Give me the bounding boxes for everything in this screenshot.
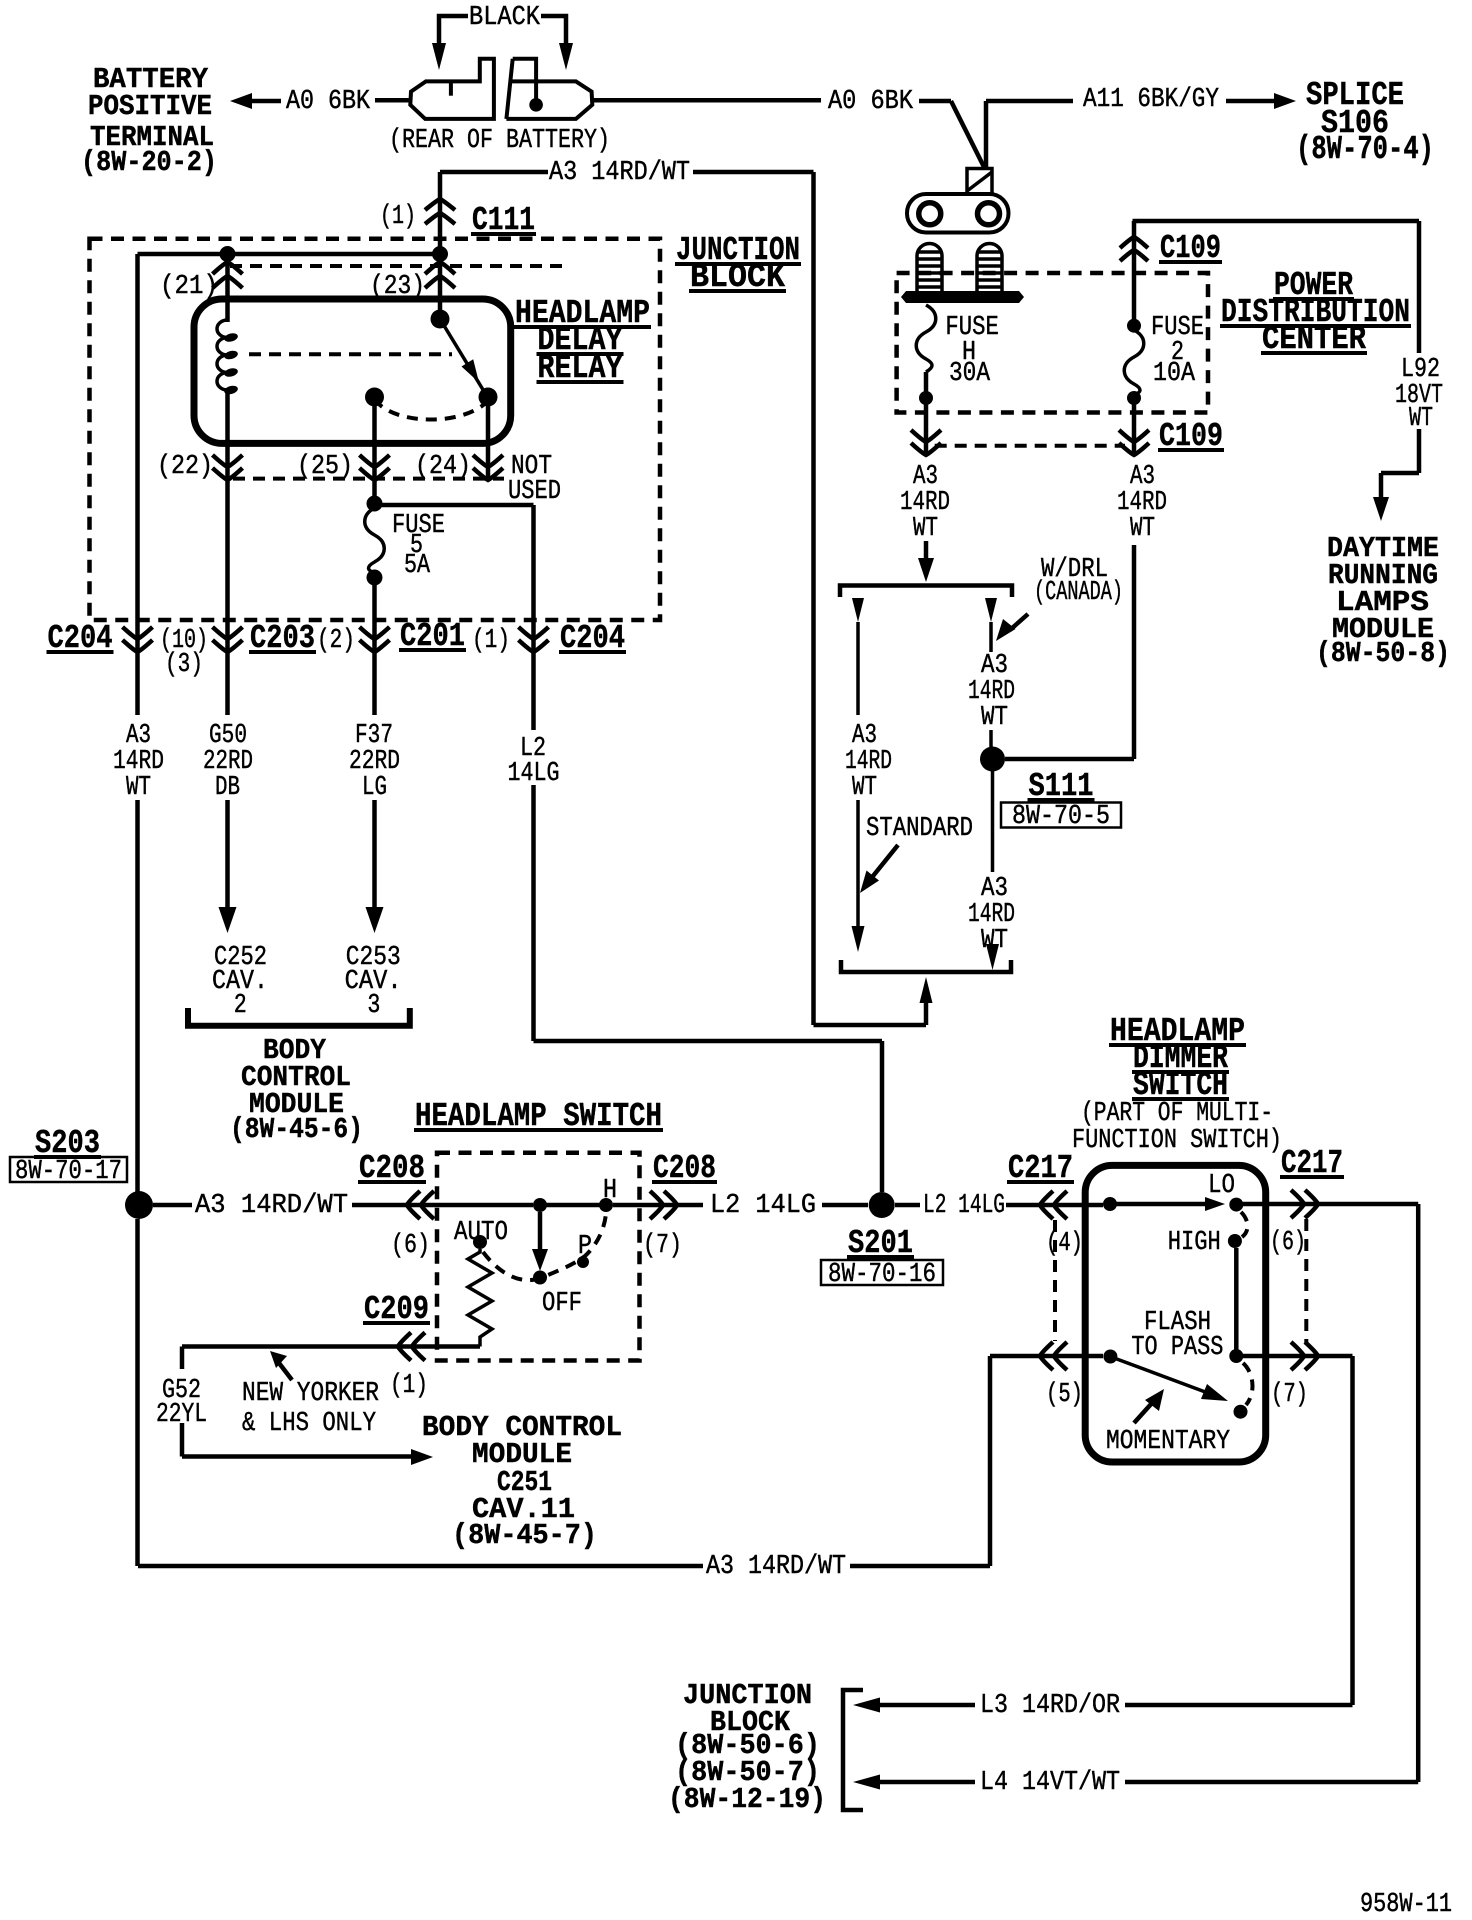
svg-text:NEW YORKER: NEW YORKER [242, 1379, 379, 1409]
svg-text:30A: 30A [949, 359, 991, 389]
svg-text:8W-70-17: 8W-70-17 [15, 1157, 122, 1187]
svg-text:(REAR OF BATTERY): (REAR OF BATTERY) [389, 126, 610, 156]
svg-text:(6): (6) [391, 1231, 430, 1261]
svg-text:(1): (1) [472, 626, 510, 656]
svg-text:(4): (4) [1046, 1229, 1083, 1259]
svg-text:(21): (21) [160, 272, 218, 302]
svg-text:(7): (7) [643, 1231, 682, 1261]
svg-text:L3 14RD/OR: L3 14RD/OR [980, 1691, 1120, 1721]
svg-text:14LG: 14LG [508, 759, 560, 789]
svg-text:WT: WT [126, 773, 151, 803]
svg-text:A0 6BK: A0 6BK [828, 87, 914, 117]
svg-text:10A: 10A [1153, 359, 1196, 389]
svg-text:FUNCTION SWITCH): FUNCTION SWITCH) [1072, 1126, 1282, 1156]
svg-text:8W-70-16: 8W-70-16 [828, 1260, 936, 1290]
svg-text:(8W-12-19): (8W-12-19) [668, 1783, 826, 1816]
svg-text:(3): (3) [165, 650, 203, 680]
svg-text:AUTO: AUTO [454, 1218, 508, 1248]
svg-text:3: 3 [367, 991, 380, 1021]
svg-text:A3 14RD/WT: A3 14RD/WT [706, 1552, 846, 1582]
svg-text:5A: 5A [404, 551, 431, 581]
svg-text:POSITIVE: POSITIVE [88, 90, 212, 123]
svg-text:DB: DB [215, 773, 240, 803]
svg-text:OFF: OFF [542, 1289, 582, 1319]
svg-text:(CANADA): (CANADA) [1034, 578, 1123, 608]
svg-text:WT: WT [852, 773, 877, 803]
svg-text:958W-11: 958W-11 [1360, 1890, 1452, 1920]
svg-text:L2 14LG: L2 14LG [710, 1191, 816, 1221]
svg-text:(8W-45-6): (8W-45-6) [230, 1113, 363, 1146]
svg-text:A11 6BK/GY: A11 6BK/GY [1083, 85, 1219, 115]
svg-text:A0 6BK: A0 6BK [286, 87, 371, 117]
svg-text:2: 2 [234, 991, 247, 1021]
svg-text:(7): (7) [1271, 1380, 1308, 1410]
svg-text:(PART OF MULTI-: (PART OF MULTI- [1081, 1099, 1273, 1129]
svg-text:WT: WT [1130, 514, 1155, 544]
svg-text:LG: LG [362, 773, 387, 803]
svg-text:(8W-45-7): (8W-45-7) [452, 1519, 597, 1552]
svg-text:BLACK: BLACK [469, 3, 541, 33]
svg-text:(5): (5) [1046, 1380, 1083, 1410]
svg-text:A3 14RD/WT: A3 14RD/WT [195, 1191, 348, 1221]
svg-text:HIGH: HIGH [1168, 1228, 1221, 1258]
svg-text:MOMENTARY: MOMENTARY [1106, 1427, 1230, 1457]
svg-text:LO: LO [1208, 1171, 1235, 1201]
svg-text:STANDARD: STANDARD [866, 814, 973, 844]
svg-text:WT: WT [981, 703, 1008, 733]
svg-text:(1): (1) [380, 202, 416, 232]
svg-text:H: H [603, 1176, 617, 1206]
svg-text:(6): (6) [1270, 1228, 1306, 1258]
svg-text:(8W-70-4): (8W-70-4) [1296, 131, 1434, 168]
svg-text:(1): (1) [390, 1371, 428, 1401]
svg-text:USED: USED [508, 477, 561, 507]
svg-text:(22): (22) [157, 452, 213, 482]
svg-text:A3 14RD/WT: A3 14RD/WT [549, 158, 690, 188]
svg-text:TO PASS: TO PASS [1131, 1333, 1223, 1363]
svg-text:(2): (2) [317, 626, 355, 656]
svg-text:L4 14VT/WT: L4 14VT/WT [980, 1768, 1120, 1798]
svg-text:8W-70-5: 8W-70-5 [1012, 802, 1110, 832]
svg-text:(8W-50-8): (8W-50-8) [1316, 637, 1450, 670]
svg-text:L2 14LG: L2 14LG [923, 1191, 1005, 1221]
svg-text:& LHS ONLY: & LHS ONLY [242, 1409, 376, 1439]
svg-text:WT: WT [913, 514, 938, 544]
svg-text:(8W-20-2): (8W-20-2) [81, 146, 217, 179]
